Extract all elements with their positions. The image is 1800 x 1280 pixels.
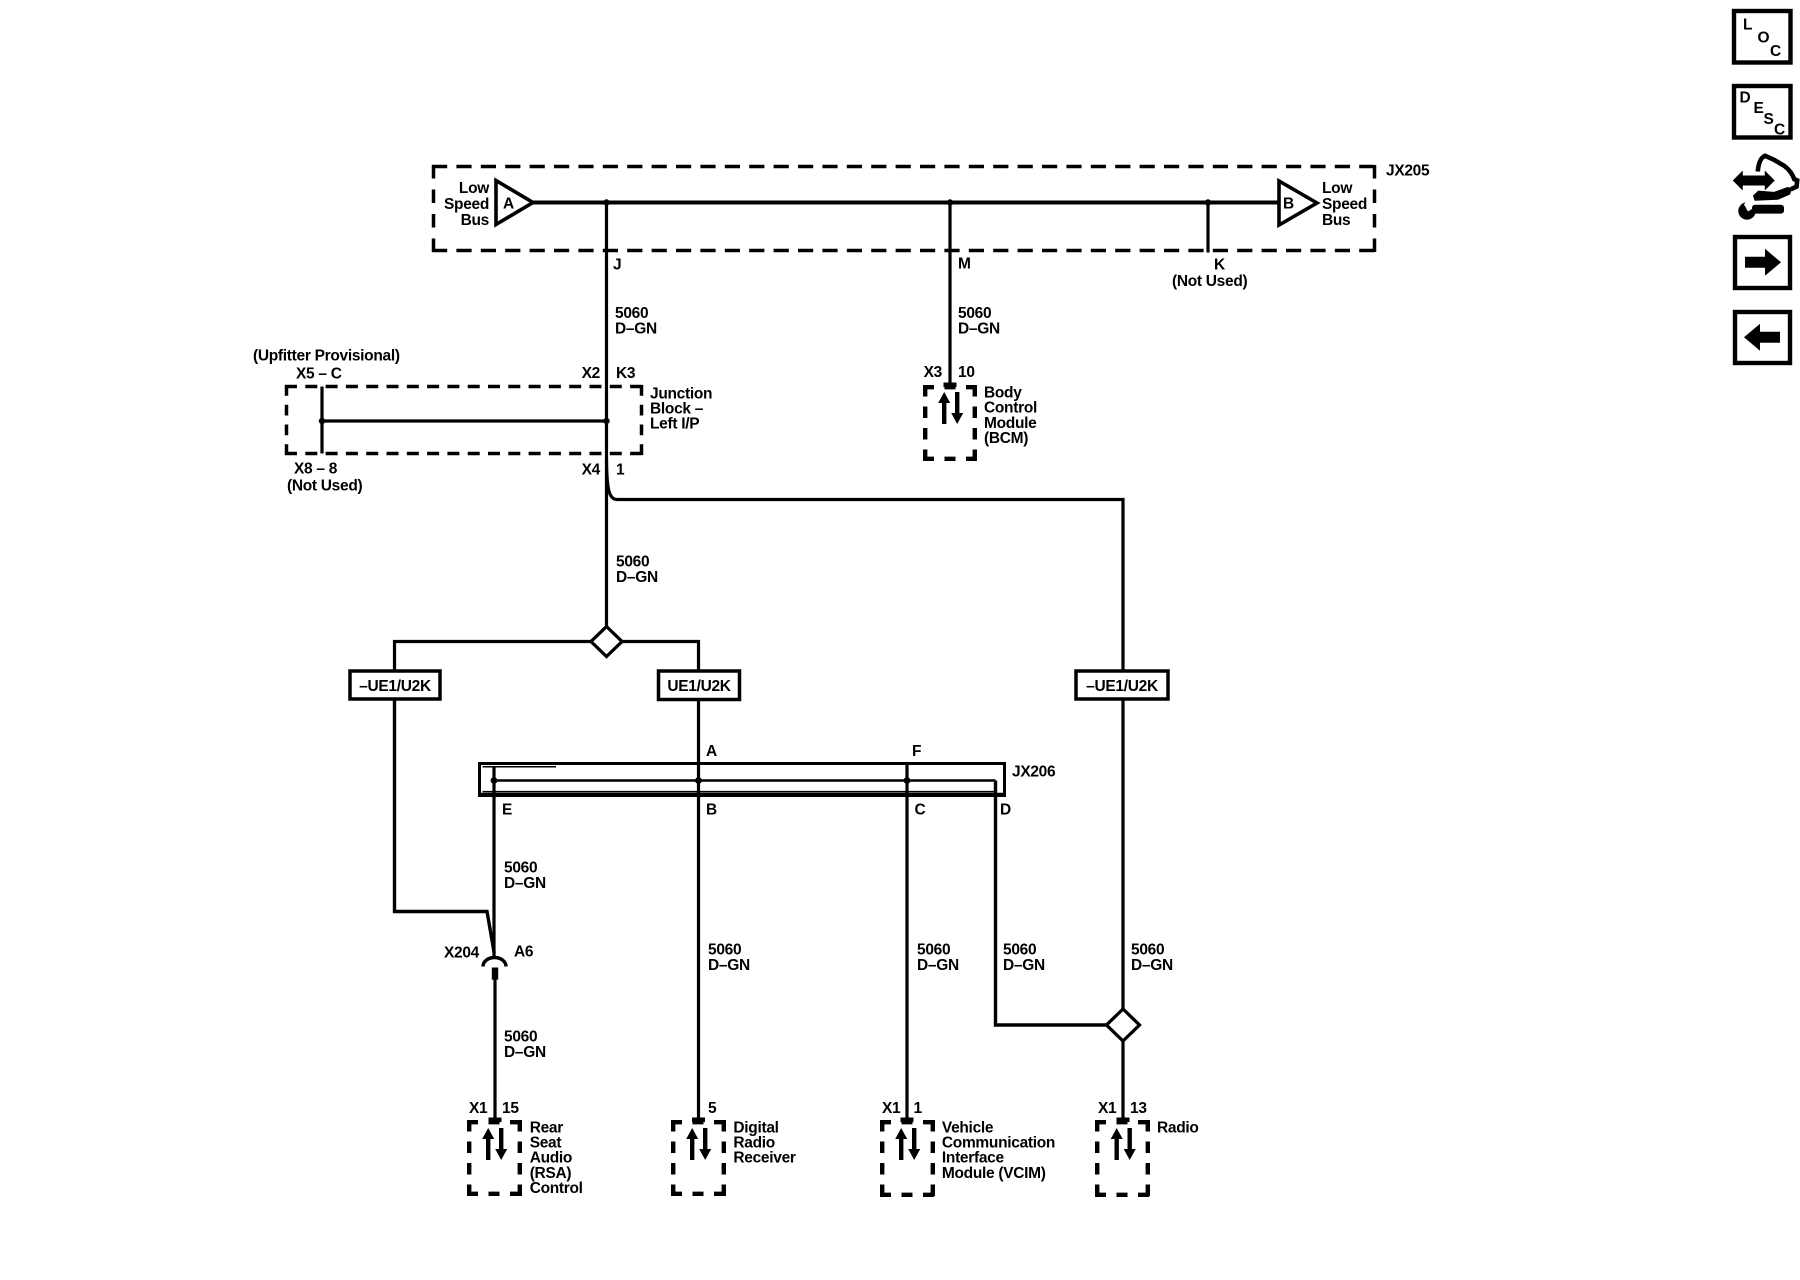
wire pin E vertical to X204 [492,767,495,958]
node dot E [491,777,498,784]
svg-text:JX206: JX206 [1012,764,1056,781]
svg-text:D–GN: D–GN [504,875,546,892]
wire pin C vertical to VCIM [905,765,908,1119]
svg-text:Bus: Bus [1322,212,1350,229]
svg-text:5060: 5060 [616,554,649,571]
option box -UE1/U2K left [350,671,440,699]
svg-text:E: E [502,802,512,819]
svg-text:5060: 5060 [1131,942,1164,959]
wire low speed bus horizontal [532,201,1279,205]
module BCM arrows [938,392,963,424]
svg-text:K3: K3 [616,365,636,382]
connector JX205 dashed box [432,165,1376,252]
module RSA arrows [482,1128,507,1160]
svg-text:L: L [1743,17,1752,34]
wire pin M to BCM pin bar [944,383,957,388]
svg-text:Receiver: Receiver [733,1150,796,1167]
splice diamond S1 [591,627,622,657]
node junction dot internal [603,418,609,424]
module VCIM arrows [895,1128,920,1160]
svg-text:D: D [1740,90,1751,107]
svg-text:D–GN: D–GN [504,1044,546,1061]
junction block dashed box [285,385,643,455]
svg-text:D–GN: D–GN [616,569,658,586]
wire internal junction block horizontal [322,419,607,422]
wire X204 to RSA [493,979,496,1118]
svg-text:D–GN: D–GN [917,957,959,974]
svg-text:X4: X4 [582,462,601,479]
wire diamond right branch [622,642,699,671]
svg-text:(BCM): (BCM) [984,430,1028,447]
svg-text:J: J [613,257,621,274]
connector X204 arc [483,958,506,967]
svg-text:D–GN: D–GN [615,321,657,338]
module BCM dashed box [923,385,977,461]
svg-text:10: 10 [958,364,975,381]
connector JX206 strip outer box [480,764,1005,796]
svg-text:X3: X3 [924,364,943,381]
svg-text:(Not Used): (Not Used) [1172,273,1247,290]
wire branch curve to right vertical [607,460,1124,670]
svg-text:D–GN: D–GN [1003,957,1045,974]
svg-text:S: S [1764,111,1774,128]
connector X204 male stub [492,968,498,980]
icon left arrow box [1735,312,1790,363]
connector JX206 strip inner top edge left cell [483,766,557,768]
svg-text:D–GN: D–GN [708,957,750,974]
node junction dot upfitter [319,418,325,424]
wire pin B vertical through to receiver [697,763,700,1118]
svg-text:(Upfitter Provisional): (Upfitter Provisional) [253,348,400,365]
node K junction dot [1205,199,1211,205]
svg-text:M: M [958,256,971,273]
svg-text:D–GN: D–GN [958,321,1000,338]
splice diamond S2 [1107,1009,1140,1041]
buffer triangle B [1279,181,1317,225]
svg-text:5: 5 [708,1100,717,1117]
svg-text:Low: Low [459,180,490,197]
buffer triangle A [496,181,533,225]
pin bar radio [1117,1118,1130,1123]
svg-text:5060: 5060 [615,305,648,322]
svg-text:Speed: Speed [444,196,489,213]
svg-text:C: C [1774,122,1785,139]
svg-text:5060: 5060 [504,1029,537,1046]
option box UE1/U2K middle [659,671,740,700]
svg-text:D: D [1000,802,1011,819]
svg-text:5060: 5060 [708,942,741,959]
svg-text:A6: A6 [514,944,534,961]
svg-text:15: 15 [502,1100,519,1117]
wire pin J vertical [605,203,608,628]
svg-text:X1: X1 [469,1100,488,1117]
pin bar VCIM [901,1118,914,1123]
wire JX206 internal bus [494,779,996,782]
svg-text:D–GN: D–GN [1131,957,1173,974]
svg-text:Low: Low [1322,180,1353,197]
svg-text:O: O [1758,30,1770,47]
svg-text:5060: 5060 [917,942,950,959]
wire pin M vertical [948,203,951,384]
svg-text:5060: 5060 [504,860,537,877]
node M junction dot [947,199,953,205]
module radio arrows [1111,1128,1136,1160]
connector JX206 strip inner bottom edge [483,791,997,793]
icon DESC box [1734,86,1791,138]
pin bar RSA [489,1118,502,1123]
wire pin K vertical [1206,203,1209,253]
wire left option down and over to X204 [395,699,495,953]
svg-text:X1: X1 [882,1100,901,1117]
svg-text:B: B [1283,196,1294,213]
svg-text:Speed: Speed [1322,196,1367,213]
svg-text:E: E [1754,100,1764,117]
svg-text:X5 – C: X5 – C [296,366,342,383]
icon LOC box [1734,11,1791,63]
svg-text:UE1/U2K: UE1/U2K [667,678,731,695]
pin bar DRR [692,1118,705,1123]
node J junction dot [603,199,609,205]
node dot B [695,777,702,784]
svg-text:X2: X2 [582,365,600,382]
wire diamond left branch [395,642,592,671]
connector JX206 strip bottom edge [478,793,1006,797]
svg-text:(Not Used): (Not Used) [287,478,362,495]
svg-text:F: F [912,743,921,760]
module VCIM dashed box [880,1120,935,1197]
svg-text:Module (VCIM): Module (VCIM) [942,1165,1046,1182]
svg-text:Left I/P: Left I/P [650,416,699,433]
icon right arrow box [1735,237,1790,288]
wire pin D down and right to splice diamond S2 [996,781,1109,1026]
module DRR dashed box [671,1120,726,1196]
svg-text:B: B [706,802,717,819]
svg-text:5060: 5060 [958,305,991,322]
icon double arrow with outline arrow and wrench [1734,156,1797,220]
svg-text:C: C [915,802,926,819]
svg-text:A: A [706,743,717,760]
svg-text:Radio: Radio [1157,1119,1199,1136]
svg-text:1: 1 [616,462,625,479]
option box -UE1/U2K right [1076,671,1168,699]
svg-text:K: K [1214,257,1226,274]
svg-text:C: C [1770,43,1781,60]
module RSA dashed box [467,1120,522,1196]
svg-text:5060: 5060 [1003,942,1036,959]
wire upfitter stub vertical X5-C to X8-8 [320,387,323,454]
svg-text:13: 13 [1130,1100,1147,1117]
svg-text:Control: Control [530,1180,583,1197]
svg-text:Bus: Bus [461,212,489,229]
svg-text:JX205: JX205 [1386,163,1430,180]
node dot C [904,777,911,784]
svg-text:X204: X204 [444,945,480,962]
module radio dashed box [1095,1120,1150,1197]
svg-text:A: A [503,196,514,213]
wire middle option down to JX206 pin A [697,700,700,764]
svg-text:–UE1/U2K: –UE1/U2K [1086,678,1159,695]
svg-text:X1: X1 [1098,1100,1117,1117]
wire right option vertical to splice S2 [1121,699,1124,1011]
module DRR arrows [686,1128,711,1160]
wire splice S2 to radio [1121,1040,1124,1118]
svg-text:1: 1 [914,1100,923,1117]
svg-text:–UE1/U2K: –UE1/U2K [359,678,432,695]
svg-text:X8 – 8: X8 – 8 [294,461,338,478]
